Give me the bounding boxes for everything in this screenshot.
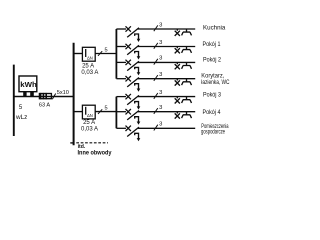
incoming supply line wLz (13, 65, 15, 136)
conductor-count slash, branch 4 Korytarz lazienka WC (154, 75, 158, 81)
fuse 63A hatch bars (40, 93, 42, 99)
svg-text:3: 3 (159, 105, 162, 111)
breaker trip arrow, branch 3 Pokoj 2 (137, 72, 141, 75)
conductor-count slash, branch 2 Pokoj 1 (154, 43, 158, 49)
meter terminal right (30, 92, 34, 97)
svg-text:3: 3 (159, 56, 162, 62)
RCD U2 I-delta-N symbol (85, 107, 87, 115)
breaker latch hook, branch 3 Pokoj 2 (135, 67, 139, 72)
svg-text:0,03 A: 0,03 A (81, 70, 98, 76)
socket outlet symbol, branch 5 Pokoj 3 (182, 97, 192, 103)
breaker contact x, branch 7 Pomieszczenia gospodarcze (126, 126, 131, 131)
svg-text:3: 3 (159, 40, 162, 46)
breaker latch hook, branch 7 Pomieszczenia gospodarcze (135, 133, 139, 138)
svg-text:5: 5 (104, 106, 107, 112)
socket outlet symbol, branch 6 Pokoj 4 (182, 112, 192, 118)
svg-text:3: 3 (159, 72, 162, 78)
wire stub from sub-bus, branch 4 Korytarz lazienka WC (116, 78, 126, 80)
conductor-count slash after fuse (52, 94, 55, 100)
breaker latch hook, branch 4 Korytarz lazienka WC (135, 84, 139, 89)
breaker blade, branch 5 Pokoj 3 (127, 95, 139, 104)
lighting point symbol, branch 3 Pokoj 2 (175, 62, 180, 69)
energy meter kWh box (19, 76, 37, 92)
circuit wire, branch 7 Pomieszczenia gospodarcze (138, 127, 195, 129)
conductor-count slash, branch 1 Kuchnia (154, 25, 158, 31)
lighting point symbol, branch 2 Pokoj 1 (175, 47, 180, 54)
wire stub from sub-bus, branch 6 Pokoj 4 (116, 111, 126, 113)
RCD U2 box (82, 105, 95, 119)
circuit wire, branch 6 Pokoj 4 (138, 111, 195, 113)
breaker latch hook, branch 2 Pokoj 1 (135, 52, 139, 57)
RCD U1 I-delta-N symbol (85, 49, 87, 57)
breaker blade, branch 4 Korytarz lazienka WC (127, 78, 139, 87)
wire stub from sub-bus, branch 1 Kuchnia (116, 28, 126, 30)
wire bus to RCD U2 (74, 111, 83, 113)
lighting point symbol, branch 4 Korytarz lazienka WC (175, 79, 180, 86)
breaker trip arrow, branch 5 Pokoj 3 (137, 106, 141, 109)
svg-text:3: 3 (159, 122, 162, 128)
lighting point symbol, branch 6 Pokoj 4 (175, 112, 180, 119)
breaker trip arrow, branch 7 Pomieszczenia gospodarcze (137, 138, 141, 141)
breaker blade, branch 6 Pokoj 4 (127, 111, 139, 120)
wire bus to RCD U1 (74, 53, 83, 55)
breaker contact x, branch 6 Pokoj 4 (126, 109, 131, 114)
svg-text:5x10: 5x10 (57, 90, 69, 96)
conductor-count slash (U1 out) (98, 51, 102, 56)
socket outlet symbol, branch 3 Pokoj 2 (182, 62, 192, 68)
circuit wire, branch 1 Kuchnia (138, 28, 195, 30)
wire RCD U2 to lower sub-bus (95, 111, 116, 113)
breaker latch hook, branch 1 Kuchnia (135, 34, 139, 39)
meter terminal left (23, 92, 26, 97)
breaker contact x, branch 1 Kuchnia (126, 26, 131, 31)
svg-text:Pokój 1: Pokój 1 (203, 41, 221, 48)
svg-text:5: 5 (104, 47, 107, 53)
svg-text:ΔN: ΔN (87, 113, 93, 118)
conductor-count slash, branch 7 Pomieszczenia gospodarcze (154, 125, 158, 131)
lower sub-bus (115, 97, 117, 129)
wire stub from sub-bus, branch 2 Pokoj 1 (116, 46, 126, 48)
wire stub from sub-bus, branch 7 Pomieszczenia gospodarcze (116, 127, 126, 129)
lighting point symbol, branch 5 Pokoj 3 (175, 97, 180, 104)
wire from wLz through meter to main bus (14, 96, 74, 98)
svg-text:63 A: 63 A (39, 102, 50, 108)
svg-text:łazienka, WC: łazienka, WC (201, 79, 230, 86)
breaker contact x, branch 4 Korytarz lazienka WC (126, 76, 131, 81)
svg-text:Pokój 2: Pokój 2 (203, 57, 221, 64)
breaker latch hook, branch 5 Pokoj 3 (135, 102, 139, 107)
svg-text:3: 3 (159, 90, 162, 96)
wire stub from sub-bus, branch 3 Pokoj 2 (116, 61, 126, 63)
svg-text:0,03 A: 0,03 A (81, 127, 98, 133)
breaker blade, branch 7 Pomieszczenia gospodarcze (127, 127, 139, 136)
conductor-count slash (U2 out) (98, 109, 102, 114)
wire stub from sub-bus, branch 5 Pokoj 3 (116, 96, 126, 98)
breaker trip arrow, branch 1 Kuchnia (137, 39, 141, 42)
wire RCD U1 to upper sub-bus (95, 53, 116, 55)
breaker trip arrow, branch 2 Pokoj 1 (137, 56, 141, 59)
breaker contact x, branch 5 Pokoj 3 (126, 94, 131, 99)
svg-text:kWh: kWh (20, 80, 37, 89)
breaker contact x, branch 2 Pokoj 1 (126, 44, 131, 49)
svg-text:3: 3 (159, 22, 162, 28)
main bus bottom tick (70, 142, 73, 144)
circuit wire, branch 4 Korytarz lazienka WC (138, 78, 195, 80)
svg-text:gospodarcze: gospodarcze (201, 128, 225, 135)
breaker trip arrow, branch 6 Pokoj 4 (137, 122, 141, 125)
fuse 63A body (39, 94, 51, 99)
socket outlet symbol, branch 2 Pokoj 1 (182, 47, 192, 53)
main distribution bus (73, 43, 75, 146)
breaker contact x, branch 3 Pokoj 2 (126, 60, 131, 65)
socket outlet symbol, branch 4 Korytarz lazienka WC (182, 79, 192, 85)
breaker blade, branch 2 Pokoj 1 (127, 45, 139, 54)
RCD U1 box (82, 47, 95, 61)
breaker blade, branch 3 Pokoj 2 (127, 61, 139, 70)
circuit wire, branch 3 Pokoj 2 (138, 61, 195, 63)
socket outlet symbol, branch 1 Kuchnia (182, 29, 192, 35)
svg-text:Kuchnia: Kuchnia (203, 25, 226, 32)
breaker blade, branch 1 Kuchnia (127, 28, 139, 37)
conductor-count slash, branch 6 Pokoj 4 (154, 108, 158, 114)
svg-text:Pokój 4: Pokój 4 (203, 109, 221, 116)
circuit wire, branch 2 Pokoj 1 (138, 46, 195, 48)
circuit wire, branch 5 Pokoj 3 (138, 96, 195, 98)
conductor-count slash, branch 5 Pokoj 3 (154, 93, 158, 99)
lighting point symbol, branch 1 Kuchnia (175, 29, 180, 36)
conductor-count slash, branch 3 Pokoj 2 (154, 59, 158, 65)
svg-text:ΔN: ΔN (87, 55, 93, 60)
svg-text:25 A: 25 A (82, 63, 94, 69)
dashed continuation other circuits (76, 142, 108, 144)
svg-text:25 A: 25 A (83, 120, 95, 126)
svg-text:Inne obwody: Inne obwody (78, 149, 113, 156)
svg-text:Pokój 3: Pokój 3 (203, 91, 221, 98)
breaker trip arrow, branch 4 Korytarz lazienka WC (137, 89, 141, 92)
upper sub-bus (115, 29, 117, 79)
svg-text:wLz: wLz (15, 114, 27, 121)
breaker latch hook, branch 6 Pokoj 4 (135, 117, 139, 122)
